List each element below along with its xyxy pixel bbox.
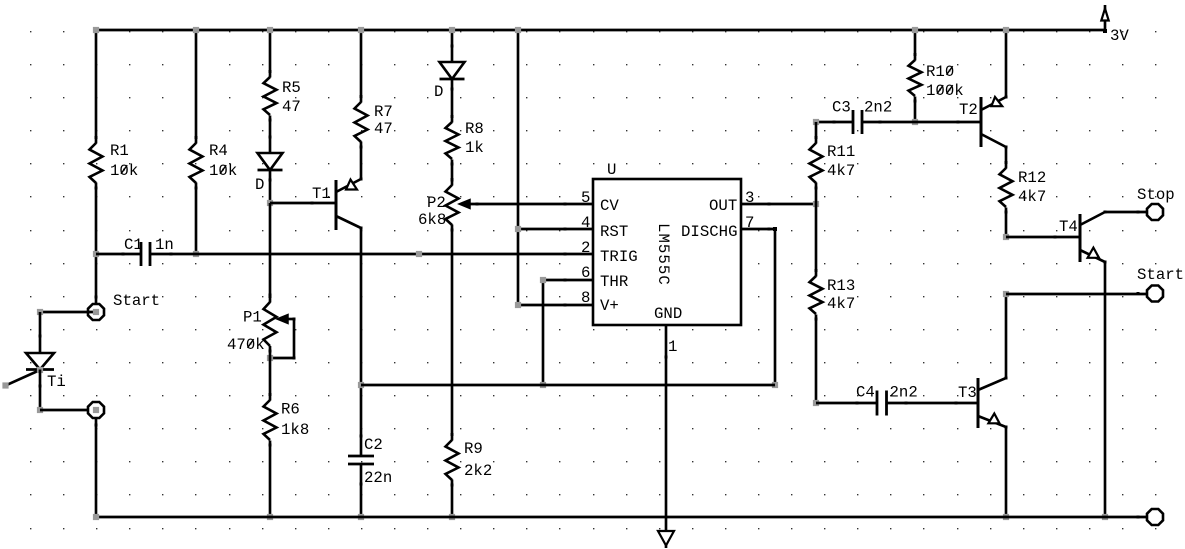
label R12 (1018, 169, 1046, 187)
pin number 8 (581, 289, 590, 307)
svg-text:CV: CV (600, 197, 619, 215)
junction V+ branch / pin8 (515, 302, 521, 308)
junction R4/TRIG wire (193, 251, 199, 257)
junction top rail R5 (267, 27, 273, 33)
label Start (right) (1137, 266, 1184, 284)
wire R12 bottom to T4 base corner (1005, 208, 1008, 238)
junction R13/C4 corner (813, 400, 819, 406)
svg-text:1: 1 (668, 338, 677, 356)
junction top rail R4 (193, 27, 199, 33)
label R6 (281, 401, 300, 419)
junction top rail V+ branch (515, 27, 521, 33)
wire R10 bottom to C3 node (914, 97, 917, 123)
svg-text:C3: C3 (832, 99, 851, 117)
label P1 value 470k (227, 336, 265, 354)
label D (left diode) (255, 176, 264, 194)
svg-text:T3: T3 (958, 384, 977, 402)
wire GND pin 1 (665, 325, 668, 531)
svg-text:2k2: 2k2 (464, 462, 492, 480)
svg-text:R11: R11 (827, 143, 855, 161)
label C4 (856, 384, 875, 402)
svg-text:R4: R4 (209, 142, 228, 160)
svg-text:R9: R9 (464, 440, 483, 458)
wire P2 bottom to R9 (451, 225, 454, 441)
wire +3V top rail (96, 29, 1105, 32)
resistor R5 (264, 70, 277, 122)
pin number 3 (745, 189, 754, 207)
svg-text:100k: 100k (926, 82, 964, 100)
wire into Start terminal (40, 311, 96, 314)
junction T1-collector/DISCHG wire (358, 382, 364, 388)
wire R1 bottom to Start terminal (95, 183, 98, 305)
capacitor C2 (348, 435, 374, 486)
junction top rail D2 (449, 27, 455, 33)
wire DISCHG vertical (774, 229, 777, 385)
pin label V+ (600, 297, 619, 315)
label C2 value 22n (364, 469, 392, 487)
wire Ti cathode (39, 370, 42, 411)
svg-text:V+: V+ (600, 297, 619, 315)
svg-text:R6: R6 (281, 401, 300, 419)
resistor R8 (446, 115, 459, 166)
svg-text:T2: T2 (959, 101, 978, 119)
svg-text:10k: 10k (209, 162, 237, 180)
node T1 base / P1 top junction (267, 200, 273, 206)
wire P1 top (269, 203, 272, 303)
junction T3 collector corner (1003, 291, 1009, 297)
svg-text:C4: C4 (856, 384, 875, 402)
terminal bottom right (1147, 509, 1163, 525)
wire T2 collector to R12 (1005, 147, 1008, 169)
svg-text:6k8: 6k8 (418, 211, 446, 229)
label R4 (209, 142, 228, 160)
svg-text:R10: R10 (926, 63, 954, 81)
svg-text:THR: THR (600, 273, 629, 291)
junction T4-emitter/ground rail (1102, 514, 1108, 520)
junction DISCHG corner (773, 227, 777, 231)
svg-text:LM555C: LM555C (654, 223, 672, 286)
svg-text:Ti: Ti (47, 373, 66, 391)
svg-text:RST: RST (600, 223, 628, 241)
pin label TRIG (600, 248, 638, 266)
wire R7 top (360, 30, 363, 103)
transistor T1 (336, 178, 363, 231)
wire R4 top (195, 30, 198, 144)
wire T4 collector to Stop terminal (1105, 211, 1146, 214)
transistor T4 (1080, 211, 1107, 264)
svg-text:T4: T4 (1059, 218, 1078, 236)
resistor R1 (90, 136, 103, 190)
pin number 6 (581, 264, 590, 282)
label P2 value 6k8 (418, 211, 446, 229)
svg-text:Start: Start (113, 292, 160, 310)
wire CV net dots (476, 203, 567, 206)
wire R13 bottom to C4 (815, 315, 818, 404)
wire T2 base (915, 121, 981, 124)
svg-text:470k: 470k (227, 336, 265, 354)
label R4 value 10k (209, 162, 237, 180)
junction THR corner (540, 277, 546, 283)
slashed zero marks (121, 66, 953, 348)
wire diode D to T1 base node (269, 170, 272, 203)
svg-text:47: 47 (374, 120, 393, 138)
junction THR/DISCHG net (540, 382, 546, 388)
svg-text:OUT: OUT (709, 197, 737, 215)
wire R9 bottom (451, 480, 454, 518)
capacitor C4 (816, 391, 978, 416)
label T2 (959, 101, 978, 119)
label R12 value 4k7 (1018, 188, 1046, 206)
thyristor Ti (6, 353, 55, 388)
label 3V (1110, 27, 1129, 45)
label P2 (427, 194, 446, 212)
junction P1 wiper/bottom (267, 355, 273, 361)
wire R8 to P2 (451, 160, 454, 186)
transistor T2 (981, 96, 1008, 149)
ground symbol arrow (658, 531, 674, 548)
svg-text:R12: R12 (1018, 169, 1046, 187)
power symbol 3V arrow (1101, 5, 1108, 33)
svg-text:D: D (255, 176, 264, 194)
resistor R9 (446, 433, 459, 487)
svg-text:1k: 1k (465, 139, 484, 157)
svg-text:Start: Start (1137, 266, 1184, 284)
junction top rail T2 (1003, 27, 1009, 33)
terminal Stop (1147, 204, 1163, 220)
junction Start terminal center (93, 309, 99, 315)
junction R9/ground rail (449, 514, 455, 520)
label P1 (243, 309, 262, 327)
junction C2/ground rail (358, 514, 364, 520)
wire R4 bottom (195, 183, 198, 255)
svg-text:10k: 10k (110, 162, 138, 180)
label R9 value 2k2 (464, 462, 492, 480)
pin label RST (600, 223, 628, 241)
junction ground rail left corner (93, 514, 99, 520)
svg-text:DISCHG: DISCHG (681, 223, 737, 241)
label R6 value 1k8 (281, 421, 309, 439)
label C1 value 1n (155, 236, 174, 254)
wire C2 bottom (360, 464, 363, 517)
label R11 (827, 143, 855, 161)
wire +3V branch to IC (vertical) (517, 30, 520, 305)
junction V+ branch / RST (515, 226, 521, 232)
resistor R10 (909, 53, 922, 103)
svg-text:2n2: 2n2 (864, 99, 892, 117)
label R9 (464, 440, 483, 458)
label T1 (312, 185, 331, 203)
svg-text:U: U (607, 161, 616, 179)
label R11 value 4k7 (827, 162, 855, 180)
junction lower terminal center (93, 407, 99, 413)
label D (top diode) (434, 83, 443, 101)
resistor R7 (355, 95, 368, 149)
svg-text:3V: 3V (1110, 27, 1129, 45)
label C4 value 2n2 (890, 384, 918, 402)
junction top rail R7 (358, 27, 364, 33)
junction T3-emitter/ground rail (1003, 514, 1009, 520)
svg-text:P1: P1 (243, 309, 262, 327)
svg-text:TRIG: TRIG (600, 248, 638, 266)
wire DISCHG pin 7 (741, 228, 775, 231)
svg-text:8: 8 (581, 289, 590, 307)
wire V+ pin 8 (518, 304, 593, 307)
svg-text:2n2: 2n2 (890, 384, 918, 402)
label C3 (832, 99, 851, 117)
svg-text:P2: P2 (427, 194, 446, 212)
wire R11 bottom (815, 183, 818, 205)
pin number 4 (581, 214, 590, 232)
wire to Start terminal (right) (1006, 292, 1146, 295)
capacitor C3 (816, 110, 915, 134)
junction DISCHG corner bottom (772, 382, 778, 388)
label U (607, 161, 616, 179)
junction R12/T4-base corner (1003, 234, 1009, 240)
junction Ti top corner (37, 309, 43, 315)
label R5 (282, 79, 301, 97)
svg-text:C2: C2 (364, 436, 383, 454)
svg-text:5: 5 (581, 189, 590, 207)
svg-text:D: D (434, 83, 443, 101)
junction C3/R11 corner (813, 119, 819, 125)
junction R1/C1 (93, 251, 99, 257)
capacitor C1 (96, 242, 196, 266)
wire T4 emitter down to ground rail (1104, 262, 1107, 517)
svg-text:T1: T1 (312, 185, 331, 203)
wire R11 top (815, 122, 818, 144)
svg-text:4: 4 (581, 214, 590, 232)
wire R6 bottom (269, 441, 272, 518)
junction top rail R10 (912, 27, 918, 33)
label R7 value 47 (374, 120, 393, 138)
label Start (left) (113, 292, 160, 310)
junction R10/C3/T2-base (912, 119, 918, 125)
svg-text:R13: R13 (827, 277, 855, 295)
svg-text:R7: R7 (374, 103, 393, 121)
wire T1 base (270, 202, 336, 205)
wire THR pin 6 (543, 279, 593, 282)
junction Ti gate end (2, 382, 8, 388)
junction top rail left corner (93, 27, 99, 33)
svg-text:R8: R8 (465, 120, 484, 138)
label T3 (958, 384, 977, 402)
svg-text:C1: C1 (124, 236, 143, 254)
pin number 7 (745, 214, 754, 232)
label C1 (124, 236, 143, 254)
wire R7 to T1 emitter (360, 142, 363, 180)
label R1 (110, 142, 129, 160)
resistor R13 (810, 269, 823, 321)
wire R5 to diode D (269, 116, 272, 154)
svg-text:4k7: 4k7 (827, 162, 855, 180)
label C3 value 2n2 (864, 99, 892, 117)
svg-text:R1: R1 (110, 142, 129, 160)
label R13 value 4k7 (827, 295, 855, 313)
transistor T3 (955, 377, 1008, 429)
label Ti (47, 373, 66, 391)
svg-text:1k8: 1k8 (281, 421, 309, 439)
pin label OUT (709, 197, 737, 215)
wire lower terminal to ground rail (95, 418, 98, 517)
terminal Start (right) (1147, 286, 1163, 302)
wire T4 base (1006, 236, 1080, 239)
wire DISCHG horizontal net (361, 384, 775, 387)
svg-text:6: 6 (581, 264, 590, 282)
wire into lower terminal (40, 409, 96, 412)
terminal lower (left) (88, 402, 104, 418)
wire ground rail (bottom) (96, 516, 1146, 519)
pin number 5 (581, 189, 590, 207)
pin label CV (600, 197, 619, 215)
potentiometer P1 (264, 295, 296, 360)
wire diode D2 top (451, 30, 454, 62)
wire T1 collector down to C2 (360, 228, 363, 456)
label LM555C (rotated) (654, 223, 672, 286)
wire Ti anode (39, 312, 42, 353)
resistor R11 (810, 136, 823, 190)
label R8 (465, 120, 484, 138)
diode D (left) (258, 153, 283, 182)
wire T2 emitter to 3V rail (1005, 30, 1008, 97)
label T4 (1059, 218, 1078, 236)
diode D (top) (440, 62, 465, 91)
wire R5 top (269, 30, 272, 78)
potentiometer P2 (446, 178, 594, 232)
svg-text:1n: 1n (155, 236, 174, 254)
pin number 2 (581, 239, 590, 257)
wire TRIG net (C1 to pin 2) (196, 251, 593, 257)
svg-text:GND: GND (654, 305, 682, 323)
resistor R6 (264, 393, 277, 447)
pin label DISCHG (681, 223, 737, 241)
wire OUT pin 3 (741, 203, 816, 206)
label R13 (827, 277, 855, 295)
junction R6/ground rail (267, 514, 273, 520)
label R10 value 100k (926, 82, 964, 100)
wire R1 top (from 3V rail) (95, 30, 98, 144)
wire RST pin 4 (518, 228, 593, 231)
svg-text:47: 47 (282, 98, 301, 116)
pin label GND (654, 305, 682, 323)
pin label THR (600, 273, 629, 291)
svg-text:R5: R5 (282, 79, 301, 97)
svg-text:Stop: Stop (1137, 186, 1175, 204)
resistor R12 (1000, 161, 1013, 214)
wire D2 to R8 (451, 79, 454, 123)
svg-text:4k7: 4k7 (1018, 188, 1046, 206)
svg-text:4k7: 4k7 (827, 295, 855, 313)
wire THR down to DISCHG net (542, 280, 545, 385)
label C2 (364, 436, 383, 454)
label R8 value 1k (465, 139, 484, 157)
label R5 value 47 (282, 98, 301, 116)
svg-text:22n: 22n (364, 469, 392, 487)
label R10 (926, 63, 954, 81)
op-amp U1 IC LM555C box (593, 179, 741, 325)
wire R10 top (914, 30, 917, 61)
wire R13 top (815, 204, 818, 277)
resistor R4 (190, 136, 203, 190)
label R7 (374, 103, 393, 121)
svg-text:2: 2 (581, 239, 590, 257)
junction Ti bottom corner (37, 407, 43, 413)
pin number 1 (668, 338, 677, 356)
label Stop (1137, 186, 1175, 204)
label R1 value 10k (110, 162, 138, 180)
wire T3 emitter down to ground rail (1005, 427, 1008, 517)
terminal Start (left) (88, 304, 104, 320)
junction OUT/R11/R13 (813, 201, 819, 207)
wire T3 collector up (1005, 294, 1008, 378)
wire P1 bottom to R6 (269, 346, 272, 401)
